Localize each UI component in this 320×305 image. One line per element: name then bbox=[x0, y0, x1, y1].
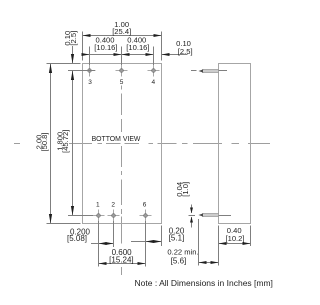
dim 1.00 line bbox=[83, 35, 162, 37]
svg-text:[2.5]: [2.5] bbox=[178, 47, 193, 56]
top pin center dash bbox=[191, 70, 197, 72]
dim 0.10 top left (vertical) bbox=[72, 46, 74, 64]
dim 0.400 line bbox=[83, 54, 154, 56]
dim 0.200 extension lines bbox=[98, 221, 100, 267]
dim 0.20 extension line right edge bbox=[161, 226, 163, 247]
svg-text:1: 1 bbox=[96, 201, 100, 208]
dim 0.04 (pin thickness) bbox=[191, 205, 193, 214]
svg-text:5: 5 bbox=[120, 79, 124, 86]
pin 5 bbox=[116, 65, 128, 77]
dim 0.20 line bbox=[131, 241, 162, 243]
dim 2.00 texts (rotated) bbox=[35, 128, 48, 156]
svg-text:0.22 min.: 0.22 min. bbox=[167, 248, 198, 257]
side view top pin bbox=[199, 69, 219, 72]
dim 0.600 extension line pin6 bbox=[145, 221, 147, 267]
dim 1.800 line bbox=[72, 71, 74, 216]
svg-text:6: 6 bbox=[143, 201, 147, 208]
dim 0.200 line bbox=[91, 243, 114, 245]
bottom pin axis line bbox=[219, 215, 232, 217]
vertical center line lower dash bbox=[121, 267, 123, 275]
svg-text:[15.24]: [15.24] bbox=[109, 255, 133, 264]
svg-text:3: 3 bbox=[88, 79, 92, 86]
BOTTOM VIEW label bbox=[90, 132, 142, 142]
side view outline bbox=[219, 64, 251, 224]
package outline bottom view bbox=[83, 64, 162, 224]
svg-text:[1.0]: [1.0] bbox=[181, 182, 190, 197]
svg-text:2: 2 bbox=[111, 201, 115, 208]
bottom pin center dash bbox=[189, 215, 196, 217]
svg-text:[5.08]: [5.08] bbox=[67, 234, 87, 243]
pin 3 bbox=[84, 65, 96, 77]
dim 0.600 line bbox=[99, 263, 146, 265]
dim 0.22 min extension lines bbox=[198, 219, 200, 266]
dim 2.00 extension lines bbox=[47, 63, 81, 65]
svg-text:[5.1]: [5.1] bbox=[169, 234, 185, 243]
svg-text:[10.16]: [10.16] bbox=[126, 43, 149, 52]
svg-text:[10.2]: [10.2] bbox=[226, 234, 245, 243]
dim 0.400 extension lines bbox=[89, 47, 91, 66]
dim 0.40 extension line bbox=[250, 226, 252, 247]
svg-text:[50.8]: [50.8] bbox=[40, 133, 49, 152]
pin 4 bbox=[148, 65, 160, 77]
pin 6 bbox=[140, 210, 152, 222]
dim 1.00 extension lines bbox=[82, 32, 84, 61]
dim 1.800 texts (rotated) bbox=[56, 127, 69, 156]
dim 0.10 top right bbox=[162, 54, 188, 56]
pin 2 bbox=[108, 210, 120, 222]
svg-text:[5.6]: [5.6] bbox=[171, 257, 187, 266]
top pin axis line bbox=[219, 70, 228, 72]
svg-text:4: 4 bbox=[151, 79, 155, 86]
dim 1.800 pin-row extension lines bbox=[68, 70, 95, 72]
dim 0.04 texts (rotated) bbox=[175, 182, 184, 197]
dim 0.22 min line bbox=[199, 262, 219, 264]
vertical center line bbox=[121, 86, 123, 90]
side view bottom pin bbox=[199, 213, 219, 216]
svg-text:[2.5]: [2.5] bbox=[69, 31, 78, 46]
svg-text:Note : All Dimensions in Inche: Note : All Dimensions in Inches [mm] bbox=[135, 278, 273, 288]
horizontal center line bbox=[14, 143, 20, 145]
dim 2.00 line bbox=[50, 64, 52, 224]
svg-text:[45.72]: [45.72] bbox=[61, 130, 70, 153]
dim 0.40 line bbox=[219, 243, 251, 245]
svg-text:BOTTOM VIEW: BOTTOM VIEW bbox=[92, 136, 141, 143]
pin 1 bbox=[93, 210, 105, 222]
svg-text:[10.16]: [10.16] bbox=[94, 43, 117, 52]
